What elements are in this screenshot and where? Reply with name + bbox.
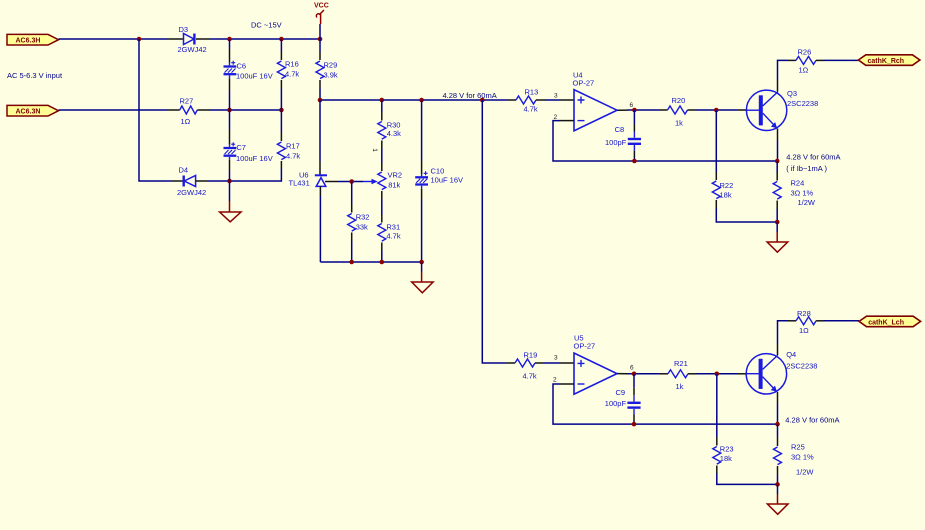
svg-text:3: 3: [554, 93, 558, 100]
svg-text:2SC2238: 2SC2238: [787, 99, 818, 108]
pin stub D4 cathode: [172, 180, 183, 182]
junction at 320,39: [318, 37, 323, 42]
pin stub R22 top: [715, 172, 717, 180]
wire R17 column upper: [280, 110, 282, 133]
wire R32 bottom to rail: [351, 241, 353, 262]
pin stub R16 bottom: [280, 80, 282, 88]
svg-text:33k: 33k: [356, 222, 368, 231]
wire net AC6.3H top: [59, 38, 169, 40]
svg-text:R17: R17: [286, 142, 300, 151]
wire D3 cathode to VCC column: [210, 38, 320, 40]
op-amp U4 OP-27: [573, 70, 618, 131]
svg-text:2GWJ42: 2GWJ42: [177, 188, 206, 197]
svg-text:AC6.3N: AC6.3N: [16, 109, 41, 116]
pin stub R28 right: [816, 320, 824, 322]
pin stub U5 pin3: [560, 362, 574, 364]
junction at 421.6,262: [419, 260, 424, 265]
svg-text:OP-27: OP-27: [574, 341, 596, 350]
wire R29 bottom to 4.28V rail: [319, 88, 321, 100]
junction at 320,100: [318, 98, 323, 103]
svg-text:AC 5-6.3 V input: AC 5-6.3 V input: [7, 71, 63, 80]
resistor R19: [515, 350, 537, 380]
svg-text:6: 6: [630, 364, 634, 371]
svg-text:R31: R31: [386, 223, 400, 232]
pin stub D3 anode: [168, 38, 183, 40]
wire U4 output to R20: [628, 109, 659, 111]
transistor Q4 2SC2238: [746, 350, 817, 394]
wire C9 bottom to feedback: [633, 421, 635, 424]
junction at 381.8,262: [380, 260, 385, 265]
wire R22 column: [715, 110, 717, 172]
svg-text:R24: R24: [791, 178, 805, 187]
svg-text:R16: R16: [285, 60, 299, 69]
pin stub R30 bottom: [381, 141, 383, 149]
wire TL431 cathode column: [319, 100, 321, 161]
wire R27 to R16 column: [209, 109, 281, 111]
pin stub R17 bottom: [280, 161, 282, 168]
wire R19 to U5 pin3: [544, 362, 560, 364]
capacitor C8 100pF: [605, 125, 641, 151]
pin stub Q3 emitter: [777, 129, 779, 141]
pin stub C9 top: [633, 388, 635, 396]
pin stub C7 top: [229, 130, 231, 144]
junction at 229.5,110: [227, 108, 232, 113]
svg-text:3.9k: 3.9k: [324, 71, 338, 80]
svg-text:R23: R23: [720, 444, 734, 453]
svg-text:100pF: 100pF: [605, 399, 627, 408]
svg-text:R29: R29: [324, 60, 338, 69]
svg-text:10uF 16V: 10uF 16V: [431, 176, 464, 185]
pin stub R17 top: [280, 133, 282, 141]
svg-text:100uF 16V: 100uF 16V: [236, 154, 273, 163]
pin stub R23 bottom: [716, 466, 718, 474]
svg-text:cathK_Rch: cathK_Rch: [868, 58, 905, 65]
pin stub R32 top: [351, 204, 353, 213]
pin stub C8 bottom: [633, 151, 635, 158]
wire R26 to output tag: [824, 59, 858, 61]
resistor R21: [668, 359, 688, 391]
wire R25 column: [777, 424, 779, 437]
junction at 351.7,262: [349, 260, 354, 265]
wire C10 bottom to rail: [421, 199, 423, 262]
resistor R26: [796, 47, 816, 74]
svg-text:4.7k: 4.7k: [523, 371, 537, 380]
svg-text:D3: D3: [179, 25, 189, 34]
junction at 634,424.1: [632, 422, 637, 427]
pin stub C10 top: [421, 161, 423, 174]
port tag AC6.3H: [7, 34, 59, 45]
wire Q4 collector up: [778, 321, 789, 344]
wire R32 column: [351, 182, 353, 205]
pin stub C9 bottom: [633, 415, 635, 422]
svg-text:4.3k: 4.3k: [387, 129, 401, 138]
resistor R24: [773, 178, 816, 207]
wire VCC to top node: [319, 24, 321, 39]
svg-text:1Ω: 1Ω: [799, 326, 809, 335]
pin stub Q4 collector: [777, 344, 779, 355]
svg-text:1: 1: [371, 148, 378, 152]
resistor R29: [316, 60, 338, 79]
wire Q3 collector up: [778, 60, 789, 80]
pin stub R29 bottom: [319, 80, 321, 88]
pin stub R21 left: [660, 373, 669, 375]
svg-text:4.7k: 4.7k: [524, 105, 538, 114]
resistor R27: [180, 97, 198, 126]
pin stub U6 ref: [325, 181, 338, 183]
capacitor C9 100pF: [605, 388, 641, 414]
svg-text:R26: R26: [798, 47, 812, 56]
pin stub C8 top: [633, 124, 635, 132]
wire U6 anode to bottom rail: [319, 196, 321, 262]
wire C6 bottom: [229, 90, 231, 110]
svg-text:18k: 18k: [720, 454, 732, 463]
svg-text:100pF: 100pF: [605, 138, 627, 147]
svg-text:100uF 16V: 100uF 16V: [236, 72, 273, 81]
resistor R32: [348, 213, 370, 232]
svg-text:D4: D4: [179, 165, 189, 174]
pin stub Q4 emitter: [777, 392, 779, 403]
svg-text:4.28 V for 60mA: 4.28 V for 60mA: [786, 152, 840, 161]
svg-text:1Ω: 1Ω: [181, 117, 191, 126]
wire U5 output to R21: [628, 373, 660, 375]
pin stub R19 right: [535, 362, 544, 364]
svg-text:R28: R28: [797, 309, 811, 318]
pin stub D4 anode: [196, 180, 208, 182]
junction at 716.3,110: [714, 108, 719, 113]
wire C7 bottom to D4 net: [229, 170, 231, 181]
junction at 281.4,110: [279, 108, 284, 113]
wire R30 column top: [381, 100, 383, 112]
wire ground stem mid: [421, 262, 423, 272]
pin stub U4 pin3: [560, 99, 574, 101]
svg-text:( if Ib~1mA ): ( if Ib~1mA ): [786, 164, 827, 173]
wire R16 column upper: [280, 39, 282, 52]
svg-text:4.7k: 4.7k: [286, 151, 300, 160]
svg-text:1/2W: 1/2W: [796, 468, 814, 477]
svg-text:4.7k: 4.7k: [285, 69, 299, 78]
pin stub R32 bottom: [351, 233, 353, 242]
svg-text:4.7k: 4.7k: [386, 231, 400, 240]
resistor R23: [713, 444, 734, 464]
pin stub R13 left: [508, 99, 516, 101]
svg-text:R30: R30: [387, 120, 401, 129]
pin stub U5 pin2: [560, 383, 574, 385]
wire R16 bottom: [280, 88, 282, 110]
op-amp U5 OP-27: [574, 333, 618, 394]
resistor R17: [277, 142, 300, 161]
wire U4 feedback loop: [553, 121, 777, 161]
junction at 229.5,39: [227, 37, 232, 42]
junction at 351.7,181.5: [349, 179, 354, 184]
wire R20 to Q3 base: [696, 109, 738, 111]
junction at 229.5,181: [227, 179, 232, 184]
junction at 381.8,100: [380, 98, 385, 103]
svg-text:1Ω: 1Ω: [799, 66, 809, 75]
resistor R22: [712, 181, 733, 200]
wire bottom rail of regulator: [320, 261, 421, 263]
wire R23 bottom to ground rail: [717, 474, 778, 485]
svg-text:R22: R22: [720, 181, 734, 190]
pin stub R24 top: [776, 172, 778, 181]
junction at 777.5,423.6: [775, 422, 780, 427]
resistor R20: [668, 96, 688, 128]
junction at 482.3,100: [480, 98, 485, 103]
wire VR2 to R31: [381, 199, 383, 215]
pin stub R21 right: [688, 373, 697, 375]
wire R25 bottom: [777, 475, 779, 485]
pin stub R27 right: [197, 109, 209, 111]
pin stub Q3 base: [738, 109, 747, 111]
wire D4 to R17 column: [208, 180, 281, 182]
junction at 777.2,159.5: [775, 159, 780, 164]
pin stub C7 bottom: [229, 160, 231, 170]
junction at 777.2,222: [775, 220, 780, 225]
pin stub U5 output: [617, 373, 628, 375]
ground symbol lower right: [767, 494, 788, 514]
pin stub R31 bottom: [381, 243, 383, 251]
svg-text:TL431: TL431: [289, 179, 310, 188]
pin stub U6 anode: [319, 186, 321, 196]
svg-text:2SC2238: 2SC2238: [786, 361, 817, 370]
svg-text:R19: R19: [524, 350, 538, 359]
pin stub C6 bottom: [229, 78, 231, 90]
svg-text:1/2W: 1/2W: [798, 198, 816, 207]
wire C9 column top: [633, 374, 635, 388]
wire R17 bottom corner: [280, 168, 282, 182]
svg-text:VCC: VCC: [314, 3, 329, 10]
wire R13 to U4 pin3: [545, 99, 560, 101]
svg-text:R32: R32: [356, 213, 370, 222]
svg-text:4.28 V for 60mA: 4.28 V for 60mA: [785, 415, 839, 424]
svg-text:R21: R21: [674, 359, 688, 368]
wire C10 column: [421, 100, 423, 161]
pin stub R13 right: [536, 99, 545, 101]
svg-text:C8: C8: [615, 125, 625, 134]
pin stub R19 left: [506, 362, 515, 364]
junction at 281.4,39: [279, 37, 284, 42]
junction at 634,373.8: [632, 372, 637, 377]
resistor R25: [774, 443, 815, 477]
pin stub U6 cathode: [319, 161, 321, 175]
pin stub R26 left: [788, 59, 796, 61]
wire Q3 emitter down: [777, 140, 779, 161]
pin stub R25 top: [777, 438, 779, 447]
resistor R30: [378, 120, 401, 139]
svg-text:Q4: Q4: [786, 350, 796, 359]
pin stub R16 top: [280, 52, 282, 60]
wire Q4 emitter down: [777, 403, 779, 424]
diode D4: [177, 165, 206, 197]
svg-text:6: 6: [630, 102, 634, 109]
svg-text:R27: R27: [180, 97, 194, 106]
pin stub R27 left: [168, 109, 180, 111]
svg-text:1k: 1k: [675, 118, 683, 127]
wire R30 to VR2: [381, 148, 383, 163]
svg-text:3Ω 1%: 3Ω 1%: [791, 453, 814, 462]
junction at 777.5,484.4: [775, 482, 780, 487]
svg-text:R20: R20: [672, 96, 686, 105]
wire drop to lower channel: [482, 100, 506, 363]
svg-text:R13: R13: [525, 87, 539, 96]
wire ground stem upper right: [776, 222, 778, 232]
wire R28 to output tag: [824, 320, 859, 322]
pin stub VR2 bottom: [381, 191, 383, 199]
pin stub R20 right: [688, 109, 697, 111]
junction at 716.8,373.8: [715, 372, 720, 377]
pin stub Q3 collector: [777, 80, 779, 92]
wire R22 bottom to ground rail: [716, 208, 777, 222]
svg-text:DC ~15V: DC ~15V: [251, 20, 282, 29]
wire ground stem lower right: [777, 484, 779, 494]
wire U5 feedback loop: [553, 384, 778, 424]
pin stub U4 output: [617, 109, 628, 111]
pin stub R23 top: [716, 437, 718, 446]
ground symbol upper right: [767, 232, 788, 252]
port tag AC6.3N: [7, 105, 59, 116]
diode D3: [178, 25, 207, 54]
junction at 139,39: [137, 37, 142, 42]
wire R21 to Q4 base: [697, 373, 739, 375]
wire net AC6.3N: [59, 109, 169, 111]
svg-text:Q3: Q3: [787, 89, 797, 98]
svg-text:1k: 1k: [676, 382, 684, 391]
pin stub R25 bottom: [777, 466, 779, 475]
junction at 634.4,110: [632, 108, 637, 113]
port tag cathK_Lch: [859, 316, 921, 327]
pin stub C6 top: [229, 49, 231, 63]
svg-text:C6: C6: [237, 62, 247, 71]
svg-text:OP-27: OP-27: [573, 78, 595, 87]
wire C7 column upper: [229, 110, 231, 130]
svg-text:C9: C9: [616, 388, 626, 397]
resistor R16: [277, 60, 299, 79]
wire VCC node to R29: [319, 39, 321, 52]
pin stub C10 bottom: [421, 189, 423, 199]
svg-text:18k: 18k: [720, 190, 732, 199]
port tag cathK_Rch: [858, 55, 920, 66]
svg-text:cathK_Lch: cathK_Lch: [868, 319, 904, 326]
svg-text:VR2: VR2: [388, 170, 403, 179]
svg-text:4.28 V for 60mA: 4.28 V for 60mA: [443, 91, 497, 100]
svg-text:R25: R25: [791, 443, 805, 452]
ground symbol left: [220, 201, 241, 222]
resistor R31: [378, 223, 401, 241]
junction at 421.6,100: [419, 98, 424, 103]
pin stub R30 top: [381, 112, 383, 121]
pin stub R29 top: [319, 52, 321, 60]
wire C8 column top: [633, 110, 635, 124]
wire R31 bottom to rail: [381, 250, 383, 262]
pin stub Q4 base: [738, 373, 746, 375]
shunt regulator U6 TL431: [289, 170, 328, 187]
svg-text:2GWJ42: 2GWJ42: [178, 45, 207, 54]
svg-text:C7: C7: [236, 143, 246, 152]
pin stub R31 top: [381, 215, 383, 223]
pin stub R26 right: [816, 59, 824, 61]
pin stub VR2 top: [381, 163, 383, 171]
pin stub U4 pin2: [560, 120, 574, 122]
pin stub R24 bottom: [776, 201, 778, 210]
resistor R13: [516, 87, 538, 113]
transistor Q3 2SC2238: [746, 89, 818, 131]
wire C8 bottom to feedback: [633, 158, 635, 162]
svg-text:C10: C10: [431, 166, 445, 175]
potentiometer VR2: [363, 170, 402, 189]
pin stub R22 bottom: [715, 200, 717, 208]
pin stub R28 left: [788, 320, 796, 322]
pin stub D3 cathode: [196, 38, 210, 40]
wire ground stem near C7: [229, 181, 231, 201]
wire R24 bottom: [776, 209, 778, 222]
pin stub R20 left: [659, 109, 668, 111]
svg-text:AC6.3H: AC6.3H: [16, 38, 41, 45]
capacitor C10 10uF 16V: [415, 166, 463, 188]
net 4.28V rail: [320, 99, 508, 101]
capacitor C6 100uF 16V: [224, 61, 273, 81]
svg-text:3: 3: [554, 354, 558, 361]
wire vertical input column x=139: [139, 39, 172, 181]
wire C6 column upper: [229, 39, 231, 49]
wire ref to VR2 wiper: [338, 181, 363, 183]
ground symbol mid: [412, 272, 433, 293]
resistor R28: [796, 309, 816, 335]
junction at 634.4,161: [632, 159, 637, 164]
wire R23 column: [716, 374, 718, 437]
svg-text:3Ω 1%: 3Ω 1%: [791, 188, 814, 197]
capacitor C7 100uF 16V: [224, 142, 273, 163]
svg-text:2: 2: [553, 377, 557, 384]
svg-text:81k: 81k: [388, 180, 400, 189]
wire R24 column: [776, 161, 778, 173]
power symbol VCC: [314, 3, 329, 24]
